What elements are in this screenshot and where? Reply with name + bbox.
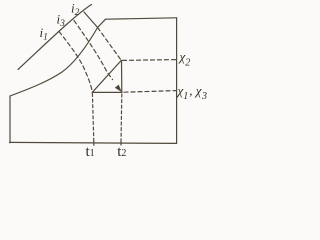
boundary curve (fold curve) [10,19,106,96]
right axis [176,18,178,144]
triangle hypotenuse [92,61,121,93]
paper background [0,0,215,165]
dashed diagonal D1 [59,32,92,93]
dashed diagonal D3 to triangle top [98,28,122,61]
t1 tick below axis [93,142,95,146]
dashed horizontal to x2 label [123,59,177,62]
dashed horizontal to x1,x3 label [124,91,176,93]
dashed diagonal D2 (arrow path) [74,21,113,80]
left axis [9,96,11,143]
top edge [106,18,177,19]
solid descender from i2 [84,12,98,28]
bottom axis (t axis) [10,142,177,143]
t2 tick below axis [120,142,122,145]
arrowhead at x1,x3 corner [115,85,122,93]
triangle bottom / x1x3 level solid part [92,91,122,93]
t2 dashed vertical [120,94,123,142]
ascending line i1-i3-i2 [18,5,92,70]
triangle right edge [121,61,123,93]
t1 dashed vertical [92,94,93,142]
